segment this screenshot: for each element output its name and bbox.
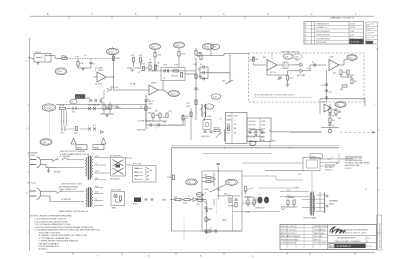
opamp top stub [271, 53, 273, 59]
wire box to caps [242, 202, 256, 204]
plug2 wires [40, 190, 56, 192]
svg-text:.1: .1 [147, 127, 149, 129]
parts table frame [304, 22, 364, 45]
svg-text:6G6B: 6G6B [222, 220, 226, 222]
svg-text:7: 7 [95, 70, 96, 72]
svg-text:V3: V3 [71, 101, 73, 103]
bias cluster d [247, 200, 249, 205]
svg-text:3.3M: 3.3M [174, 65, 178, 67]
svg-text:R10: R10 [148, 113, 151, 115]
parts table row line [304, 39, 364, 41]
svg-text:R22: R22 [333, 73, 336, 75]
svg-text:TO HUM BAL: TO HUM BAL [60, 155, 70, 158]
svg-text:R6 1M: R6 1M [59, 105, 65, 107]
svg-text:APP F.T. 11-2-62: APP F.T. 11-2-62 [281, 232, 294, 235]
left cluster res [103, 105, 105, 110]
svg-text:A-21645-C: A-21645-C [39, 248, 49, 251]
border tick [28, 127, 30, 129]
svg-text:R36: R36 [217, 190, 220, 192]
filter wire [153, 124, 185, 126]
ground stack plug [47, 171, 50, 173]
border tick [223, 252, 225, 254]
svg-text:SO. CALIF. FULLERTON, CALIF: SO. CALIF. FULLERTON, CALIF [340, 231, 367, 234]
fender logo script [330, 227, 346, 233]
U2 res c [351, 79, 353, 84]
ac plug prongs [30, 160, 36, 165]
title divider [328, 235, 377, 237]
choke [214, 129, 220, 131]
svg-text:220K 220K: 220K 220K [286, 197, 295, 199]
bias riser [206, 199, 208, 231]
svg-text:1. ALL RESISTORS ARE 1/2W 10%: 1. ALL RESISTORS ARE 1/2W 10% [34, 218, 66, 221]
svg-text:C6: C6 [163, 78, 165, 80]
tone caps cluster [90, 99, 91, 102]
svg-text:CT: CT [95, 198, 97, 200]
pt secondary taps [94, 157, 110, 159]
parts table dark cell [350, 39, 364, 44]
border tick [288, 16, 290, 18]
left cluster gnd [106, 115, 109, 117]
triode V2A [149, 85, 158, 95]
border tick [156, 16, 158, 18]
resistor row [149, 65, 151, 70]
svg-text:REV. AMP. SCHEMATIC: REV. AMP. SCHEMATIC [39, 242, 60, 245]
ctrl res wiggle [204, 113, 206, 121]
vert line x270b [269, 140, 271, 148]
plug2 wire2 [62, 190, 84, 192]
trem parts chain [329, 108, 331, 113]
svg-text:PARALLEL: PARALLEL [325, 169, 333, 172]
wire cluster [145, 112, 147, 121]
bubble pair top [203, 44, 214, 50]
gnd riser [325, 97, 328, 99]
vert res left [142, 67, 144, 71]
junction [251, 187, 252, 188]
svg-text:UNLESS NOTED: UNLESS NOTED [314, 226, 328, 228]
cathode resistor [235, 203, 237, 208]
U2 mix res [342, 85, 347, 87]
dashed drop pi [215, 199, 217, 215]
input jack tip lead [45, 55, 51, 57]
wire plate to riser [106, 76, 114, 78]
border tick [376, 167, 380, 169]
parts table divider [348, 22, 350, 45]
svg-text:.1: .1 [234, 120, 236, 122]
parts table row line [304, 36, 364, 38]
wire into ot2 [242, 162, 303, 164]
bias wires [170, 199, 175, 201]
long wire y90 [114, 89, 150, 91]
B+ rail [171, 147, 339, 149]
resistor row 2 [154, 65, 156, 70]
border tick [244, 16, 246, 18]
row links vertical [61, 111, 63, 127]
svg-text:25MF: 25MF [208, 209, 212, 211]
coupling res col a [132, 58, 134, 63]
small marks [199, 52, 202, 54]
svg-text:C4: C4 [140, 71, 142, 73]
output transformer T2 core [310, 192, 312, 216]
parts table row line [304, 24, 364, 26]
mini table arrow [371, 27, 375, 29]
heater secondary loops [91, 189, 92, 207]
pilot box [111, 192, 125, 206]
pi input cap [217, 164, 220, 165]
plate resistor RB [178, 52, 180, 57]
jack divider [44, 54, 46, 63]
svg-text:R12 470K ADD: R12 470K ADD [316, 30, 330, 33]
svg-text:O: O [376, 47, 378, 51]
bubble 2 [211, 44, 220, 49]
svg-text:GRD SW 117V 60CY 2A FUSE: GRD SW 117V 60CY 2A FUSE [60, 150, 86, 153]
cap C5 [144, 100, 147, 101]
ctrl box A divider [231, 112, 233, 143]
svg-text:10-62: 10-62 [350, 23, 356, 25]
trem wires [329, 104, 331, 108]
trem box top [320, 98, 365, 100]
drawing number dark [335, 244, 366, 248]
ctrl box A [226, 112, 248, 143]
svg-text:TIP: TIP [134, 179, 136, 181]
lamp box [203, 120, 211, 130]
res small [200, 55, 202, 60]
diag wire [225, 80, 233, 84]
plate bubble inner [108, 49, 117, 53]
border tick [28, 191, 30, 193]
wire cathode [77, 59, 79, 62]
bias gnd [205, 232, 208, 234]
svg-text:.02: .02 [200, 64, 203, 66]
revision col [286, 225, 288, 249]
caution underline [345, 155, 362, 157]
node bubble V1 pair [55, 68, 67, 75]
svg-text:CAUTION THIS UNIT: CAUTION THIS UNIT [345, 156, 363, 159]
border tick [28, 59, 30, 61]
svg-text:REVERB CIRCUIT: REVERB CIRCUIT [281, 52, 300, 54]
wire to opamp [253, 63, 255, 65]
svg-text:.02: .02 [149, 62, 151, 64]
reverb opamp U1 [267, 60, 277, 71]
svg-text:4. ALL VOLTAGES READ WITH VTVM: 4. ALL VOLTAGES READ WITH VTVM NO SIGNAL… [34, 226, 93, 229]
svg-text:VOLTAGE. USE CARE WHEN: VOLTAGE. USE CARE WHEN [345, 162, 370, 165]
U2 wires [340, 75, 342, 78]
parts table row line [304, 32, 364, 34]
node bubble mid [211, 94, 221, 99]
ctrl box B [247, 118, 271, 142]
title divider2 [328, 242, 377, 244]
gnd symbols ps [145, 199, 148, 201]
trem side parts [335, 110, 337, 115]
border top edge [30, 15, 374, 17]
res cluster a [152, 113, 154, 118]
reverb opamp U2 [329, 60, 339, 71]
svg-text:A-21645-C SCHEMATIC: A-21645-C SCHEMATIC [378, 224, 381, 248]
svg-text:R32 10K: R32 10K [249, 125, 257, 127]
res on x183 [182, 116, 184, 121]
svg-text:20MF 450V: 20MF 450V [255, 208, 265, 210]
svg-text:A-21645: A-21645 [351, 41, 360, 44]
row2 wire [67, 128, 77, 130]
rca jack B [300, 69, 303, 73]
heater primary loops [86, 189, 87, 207]
svg-text:TOLERANCES: TOLERANCES [314, 229, 326, 232]
svg-text:C18 .02: C18 .02 [249, 133, 255, 135]
ot nested rect outer [303, 158, 320, 171]
wire feed reverb [196, 54, 224, 56]
line switch S1 [52, 159, 58, 162]
svg-text:.022: .022 [131, 55, 134, 57]
svg-text:EXT: EXT [336, 163, 339, 165]
svg-text:350: 350 [213, 47, 216, 49]
svg-text:R11: R11 [155, 111, 158, 113]
drop resistor [190, 112, 192, 117]
bypass cap C1 [89, 63, 92, 64]
svg-text:SCHEMATIC NOTATION: SCHEMATIC NOTATION [330, 17, 355, 20]
svg-text:A-21645-C: A-21645-C [337, 244, 352, 248]
border tick [309, 252, 311, 254]
border tick [68, 16, 70, 18]
border tick [175, 252, 177, 254]
diag junction mark [218, 133, 222, 136]
res pair wires [288, 196, 294, 198]
svg-text:GZ34: GZ34 [327, 158, 332, 160]
svg-text:DEC ±.005: DEC ±.005 [314, 236, 322, 238]
jackbox right vert [338, 153, 340, 163]
row2 x caps [88, 128, 96, 131]
mini table arrow [371, 41, 375, 43]
bias res 1 [175, 198, 181, 200]
svg-text:.022: .022 [139, 55, 142, 57]
ot nested rect inner [307, 160, 318, 168]
switch box [93, 145, 104, 150]
svg-text:SHT: SHT [367, 238, 370, 240]
riser x224.6 [224, 130, 226, 142]
B+ rail upper [171, 145, 339, 147]
parts table left column [311, 22, 313, 45]
svg-text:470: 470 [298, 174, 301, 176]
svg-text:0.5: 0.5 [84, 55, 87, 57]
box bottom bus [171, 230, 242, 232]
res at 173 [172, 175, 174, 180]
svg-text:R9: R9 [140, 107, 142, 109]
right res [244, 187, 246, 192]
bias cluster c [229, 198, 231, 203]
plate supply bubble [107, 48, 119, 54]
ac wires to xfmr [68, 159, 84, 161]
mini table arrow [371, 36, 375, 38]
svg-text:V3: V3 [206, 106, 208, 108]
wire under note [254, 96, 312, 98]
wire bubble A down [154, 50, 156, 53]
border tick [28, 231, 30, 233]
svg-text:C12: C12 [321, 85, 324, 87]
svg-text:SCALE NONE WT: SCALE NONE WT [281, 242, 297, 245]
mini table row [366, 39, 378, 41]
dashed drop [48, 111, 50, 138]
heater transformer core [87, 187, 89, 207]
svg-text:FOOT SW: FOOT SW [133, 164, 142, 166]
return cap [314, 63, 315, 66]
svg-text:5. VOLTAGES MEASURED WITH CONT: 5. VOLTAGES MEASURED WITH CONTROLS AT ZE… [34, 229, 100, 232]
wire pan [288, 64, 300, 66]
svg-text:220K: 220K [75, 57, 80, 59]
svg-text:R18: R18 [263, 57, 266, 59]
svg-text:CHOKE: CHOKE [213, 128, 220, 130]
svg-text:450V 450V: 450V 450V [201, 136, 210, 138]
svg-text:SW GRD: SW GRD [54, 172, 62, 174]
svg-text:.01: .01 [332, 116, 334, 118]
pi input riser [217, 166, 219, 200]
shield box parts [164, 69, 165, 72]
right riser parts [195, 74, 197, 79]
rail junction dots [224, 147, 225, 148]
bias res 2 [184, 198, 190, 200]
svg-text:"VIBROLUX AMP" SCHEMATIC: "VIBROLUX AMP" SCHEMATIC [334, 240, 362, 243]
svg-text:47: 47 [220, 119, 222, 121]
svg-text:TREB: TREB [227, 116, 233, 118]
row2 parts [75, 127, 77, 131]
svg-text:PLUG AC: PLUG AC [28, 154, 36, 157]
svg-text:R7: R7 [141, 61, 143, 63]
wire vol to tone [86, 97, 91, 99]
svg-text:TO ALL TUBES V1-V7: TO ALL TUBES V1-V7 [59, 188, 77, 191]
wire tone out [101, 97, 104, 99]
trem box right stub [364, 99, 366, 107]
svg-text:.1: .1 [88, 125, 89, 127]
wire stub pi [213, 199, 215, 206]
svg-text:470K: 470K [260, 140, 265, 142]
svg-text:20MF 450V: 20MF 450V [137, 130, 147, 132]
size letter box [329, 244, 334, 248]
svg-text:.045: .045 [328, 92, 331, 94]
svg-text:GUITAR AMPLIFIER: GUITAR AMPLIFIER [337, 237, 356, 240]
gnd stub [287, 80, 289, 84]
supply bubble A [150, 44, 161, 50]
wire V2A plate [158, 89, 163, 91]
ground at jack [37, 63, 40, 65]
svg-text:FRACT ±1/64: FRACT ±1/64 [314, 232, 324, 235]
svg-text:R31 68K: R31 68K [249, 121, 257, 123]
riser cap 1 [325, 84, 328, 85]
res pair [287, 200, 289, 205]
svg-text:WITH TUBE CONDITION: WITH TUBE CONDITION [39, 233, 61, 235]
stack bus right [207, 67, 209, 79]
right riser x196 [195, 58, 197, 120]
U2 res a [340, 70, 342, 75]
svg-text:MUSICAL INSTRUMENTS: MUSICAL INSTRUMENTS [344, 228, 368, 231]
node bubble V1 inner [57, 69, 65, 74]
row1 pot marks [72, 107, 74, 111]
reverb dashed enclosure [249, 53, 365, 102]
svg-text:ANG ±1°: ANG ±1° [314, 238, 321, 241]
volume pot dark blob [75, 94, 85, 99]
svg-text:CHANGED R7: CHANGED R7 [316, 22, 330, 25]
svg-text:.1: .1 [203, 213, 204, 215]
svg-text:.1: .1 [198, 90, 200, 92]
svg-text:25: 25 [119, 108, 121, 110]
ctrl box B divider [259, 118, 261, 142]
svg-text:464: 464 [222, 81, 225, 83]
ac plug 2 prongs [30, 191, 36, 196]
rca jack A [300, 63, 303, 67]
svg-text:C7 .02: C7 .02 [149, 101, 154, 103]
feedback loop [266, 71, 268, 76]
speaker jack wires [316, 194, 325, 196]
svg-text:A. TREMOLO CIRCUIT GROUNDED O: A. TREMOLO CIRCUIT GROUNDED OUT THRU FT.… [39, 234, 88, 237]
T2 secondary loops [313, 195, 316, 212]
filter gnd [255, 135, 258, 137]
bubble small B [249, 141, 256, 145]
input jack inner contact [36, 56, 43, 58]
reverb drive transformer [283, 62, 288, 69]
svg-text:12AX7: 12AX7 [204, 188, 209, 191]
title block divider v [327, 225, 329, 250]
border tick [354, 252, 356, 254]
svg-text:.1: .1 [210, 228, 211, 230]
rectifier box [111, 158, 126, 177]
tick above bubble [112, 47, 114, 49]
T2 primary loops [310, 193, 311, 214]
left cluster cap [115, 106, 118, 107]
svg-text:JEWEL: JEWEL [111, 208, 117, 210]
border tick [378, 189, 380, 191]
svg-text:SPEAKER: SPEAKER [329, 200, 339, 203]
svg-text:JACK: JACK [329, 203, 335, 206]
ac plug 2 circle [37, 188, 41, 200]
svg-text:DO NOT SCALE: DO NOT SCALE [314, 242, 327, 245]
svg-text:BASS: BASS [77, 147, 83, 150]
wire bottom [146, 124, 150, 126]
output box [202, 171, 242, 231]
standby dark marks [134, 198, 141, 203]
svg-text:REV. PAN: REV. PAN [297, 74, 306, 77]
svg-text:DWN J.C. 10-5-62: DWN J.C. 10-5-62 [281, 226, 296, 228]
ps bubble pair [40, 139, 52, 145]
V1A grid wire [93, 76, 97, 78]
fb resistor [286, 76, 288, 81]
svg-text:C9 25MF NEW: C9 25MF NEW [316, 38, 330, 40]
power transformer T1 core [87, 156, 89, 180]
triode V1A triangle [97, 72, 106, 82]
filter caps [203, 131, 206, 132]
res cluster c [166, 113, 168, 118]
cap stack 2 [203, 71, 204, 74]
filter right cluster [248, 131, 251, 132]
mini table arrow [371, 23, 375, 25]
svg-text:C4: C4 [149, 59, 151, 61]
channel bubble pair [42, 104, 56, 111]
bubble left [186, 179, 198, 185]
svg-text:B+: B+ [250, 143, 252, 145]
wire bubble [163, 90, 169, 94]
wire grid line dotted [67, 58, 114, 60]
bottom box small [310, 154, 323, 159]
pt primary loops [86, 157, 87, 176]
svg-text:8: 8 [332, 157, 333, 159]
fuse box [76, 145, 87, 150]
output box bubble [226, 179, 238, 185]
big caps dark a [257, 197, 262, 204]
drop to rail [190, 108, 192, 140]
cap stack wires [200, 66, 203, 68]
ground cathode [82, 69, 85, 71]
wire stub [110, 86, 112, 90]
switch S2 [56, 191, 62, 194]
ref-des mini table [366, 22, 378, 44]
parts table divider [314, 22, 316, 45]
jackbox out wires [320, 158, 339, 160]
svg-text:NOTE: REVERB UNIT PLUGS IN. SE: NOTE: REVERB UNIT PLUGS IN. SEE NOTE 4 [254, 94, 295, 96]
